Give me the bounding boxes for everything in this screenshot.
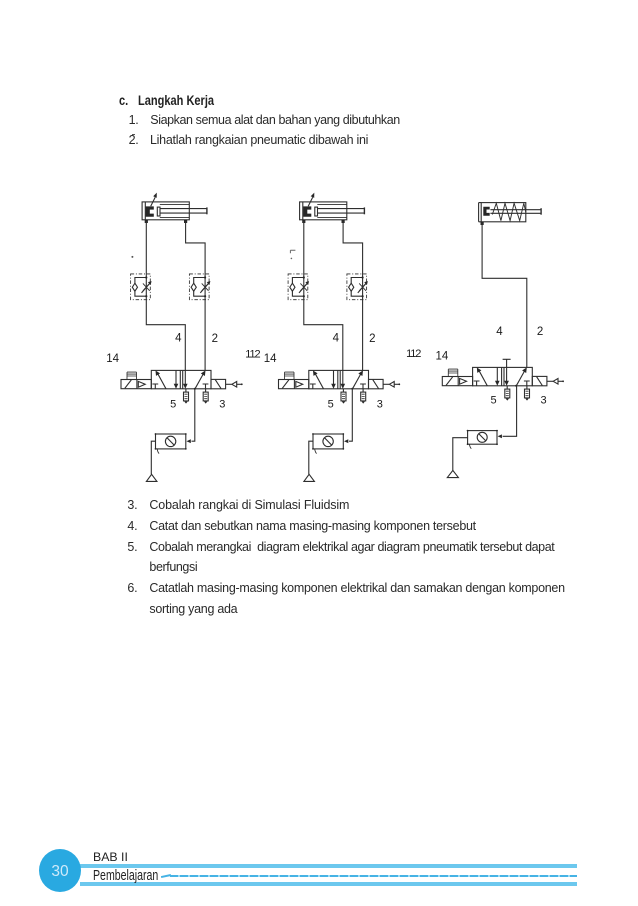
svg-text:112: 112 bbox=[245, 349, 260, 361]
svg-text:112: 112 bbox=[406, 348, 421, 360]
svg-text:5: 5 bbox=[491, 395, 497, 407]
svg-text:3: 3 bbox=[541, 395, 547, 407]
svg-text:2: 2 bbox=[537, 326, 543, 338]
svg-text:4: 4 bbox=[496, 326, 503, 338]
svg-text:14: 14 bbox=[436, 351, 449, 363]
